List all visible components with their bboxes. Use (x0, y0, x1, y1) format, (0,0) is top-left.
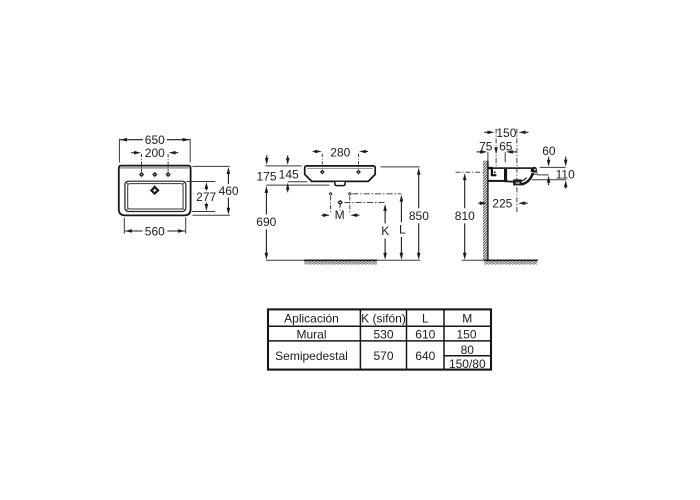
dim 75 arrow down on axis (494, 147, 498, 154)
wall face line (487, 161, 489, 261)
dim 560 line left w/ arrow (125, 229, 143, 233)
axis dashdot K (344, 201, 384, 203)
tap axis dash line (495, 129, 497, 168)
svg-text:L: L (399, 223, 406, 237)
dim 650 extension left (118, 139, 120, 163)
dim 110 arrow up (564, 180, 568, 188)
dim 850 arrow down (417, 223, 421, 259)
dim 460 bottom ref line (192, 214, 230, 216)
dim 277 arrow down (205, 203, 209, 211)
svg-text:M: M (462, 312, 472, 326)
drain section (513, 179, 522, 185)
drain axis dashdot (516, 129, 518, 213)
bowl bottom ref line (532, 179, 566, 181)
dim 810 arrow up (463, 173, 467, 208)
table column line 1 (359, 309, 361, 369)
dim 200 dash line left (141, 154, 143, 172)
basin rim top section (493, 167, 532, 169)
svg-text:690: 690 (256, 215, 276, 229)
dim M arrow right (350, 213, 359, 217)
dim 200 arrow left (131, 151, 141, 155)
dim 225 arrow left (478, 201, 486, 205)
dim 650 extension right (189, 139, 191, 163)
svg-text:277: 277 (196, 190, 216, 204)
dim 200 dash line right (167, 154, 169, 172)
dim 280 arrow left (313, 150, 322, 154)
TABLE (268, 309, 491, 371)
svg-text:530: 530 (373, 328, 393, 342)
dim 277 top ref line (187, 181, 216, 183)
dim 560 extension right (185, 218, 187, 234)
top ref line left (266, 165, 302, 167)
dim K arrow down (383, 239, 387, 260)
svg-text:640: 640 (415, 349, 435, 363)
svg-text:850: 850 (409, 209, 429, 223)
siphon hole (338, 200, 343, 205)
dim 60 arrow down (547, 157, 551, 167)
dim 650 line right w/ arrow (167, 138, 190, 142)
svg-text:150: 150 (496, 126, 516, 140)
dim 280 dash line left (321, 154, 323, 170)
svg-text:M: M (335, 208, 345, 222)
dim M arrow left (321, 213, 330, 217)
bowl front rise (521, 173, 532, 185)
bowl corner tick top-right (182, 182, 185, 184)
dim 560 extension left (123, 218, 125, 234)
axis dashdot L (352, 193, 401, 195)
bracket axis dashdot (456, 171, 483, 173)
dim K arrow up (383, 204, 387, 224)
svg-text:150/80: 150/80 (449, 357, 486, 371)
dim 810 arrow down (463, 223, 467, 259)
drain symbol (150, 185, 160, 195)
axis dashdot M left (330, 197, 332, 214)
wall extension line (487, 152, 489, 161)
bowl front rise inner edge (521, 178, 527, 182)
floor line right (462, 259, 538, 261)
basin front rim bump (531, 167, 537, 172)
bowl bottom section (504, 180, 514, 182)
svg-text:810: 810 (455, 209, 475, 223)
table row line M split (444, 355, 491, 357)
floor hatch top line right (484, 259, 538, 261)
dim 150 arrow left (484, 131, 494, 135)
svg-text:175: 175 (256, 169, 276, 183)
ref line 145 bottom (288, 181, 307, 183)
bowl corner tick bottom-right (182, 208, 185, 210)
face hole right (356, 170, 361, 175)
svg-text:570: 570 (373, 349, 393, 363)
basin rim inner line (120, 167, 189, 169)
dim 110 arrow down (564, 157, 568, 167)
svg-text:60: 60 (542, 144, 556, 158)
svg-text:145: 145 (279, 168, 299, 182)
dim 277 bottom ref line (192, 211, 215, 213)
dim 277 arrow up (205, 182, 209, 191)
dim 850 arrow up (417, 168, 421, 209)
tap hole left (139, 172, 144, 177)
floor hatch right (484, 261, 537, 264)
dim L arrow up (400, 195, 404, 222)
svg-text:280: 280 (330, 146, 350, 160)
tap hole center (152, 172, 157, 177)
svg-text:Semipedestal: Semipedestal (275, 349, 348, 363)
rim top ref line (540, 166, 566, 168)
basin bottom ledge section (488, 180, 504, 182)
dim 75 arrow (477, 150, 488, 154)
dim 460 arrow up (227, 167, 231, 184)
drain boss front (335, 182, 345, 186)
ref line 175 bottom (266, 184, 329, 186)
wall hatch (483, 161, 488, 261)
bowl back wall section (504, 169, 507, 181)
basin front outline (305, 166, 375, 182)
dim 690 arrow up (265, 186, 269, 215)
dim 200 arrow right (169, 151, 179, 155)
basin outer body (119, 166, 191, 216)
floor hatch center (304, 261, 376, 264)
top ref line right (381, 166, 420, 168)
pedestal hole right (348, 192, 352, 196)
FRONT VIEW (256, 146, 429, 265)
svg-text:150: 150 (456, 328, 476, 342)
ledge ref line (537, 174, 548, 176)
basin front rim line (307, 167, 372, 169)
axis dashdot M right (349, 197, 351, 214)
dim L arrow down (400, 237, 404, 260)
dim 145 arrow down (286, 155, 290, 165)
tap hole right (166, 172, 171, 177)
svg-text:Mural: Mural (296, 328, 326, 342)
ref line 65 (504, 152, 506, 162)
table row line 1 (268, 325, 491, 327)
bowl corner tick top-left (126, 182, 129, 184)
bowl inner edge (128, 184, 183, 209)
face hole left (320, 170, 325, 175)
svg-text:K (sifón): K (sifón) (361, 312, 406, 326)
svg-text:610: 610 (415, 328, 435, 342)
dim 65 arrow (506, 150, 516, 154)
svg-text:110: 110 (556, 168, 575, 182)
axis dash center (339, 205, 341, 212)
dim 460 arrow down (227, 198, 231, 215)
svg-text:K: K (381, 224, 389, 238)
mounting bracket (488, 167, 497, 177)
svg-text:80: 80 (461, 343, 475, 357)
floor hatch top line (304, 259, 377, 261)
svg-text:225: 225 (492, 197, 512, 211)
dim 690 arrow down (265, 230, 269, 260)
table outer border (268, 309, 491, 369)
svg-text:560: 560 (145, 224, 165, 238)
PLAN VIEW (119, 133, 239, 238)
svg-text:Aplicación: Aplicación (284, 312, 339, 326)
dim 280 arrow right (359, 150, 368, 154)
dim 145 arrow up (286, 183, 290, 193)
dim 560 line right w/ arrow (167, 229, 185, 233)
bowl outer edge (125, 181, 186, 211)
dim 175 arrow down (265, 155, 269, 165)
dim 150 arrow right (519, 131, 529, 135)
svg-text:L: L (422, 312, 429, 326)
dim 280 dash line right (358, 154, 360, 170)
SIDE VIEW (455, 126, 575, 265)
dim 60 arrow up (547, 176, 551, 186)
dim 460 top ref line (192, 165, 229, 167)
table column line 2 (406, 309, 408, 369)
table column line 3 (443, 309, 445, 369)
svg-text:200: 200 (145, 146, 165, 160)
basin front lower square (533, 172, 537, 175)
floor line center (266, 259, 420, 261)
dim 225 arrow right (518, 201, 528, 205)
table row line 2 (268, 340, 491, 342)
dim 650 line left w/ arrow (120, 138, 143, 142)
pedestal hole left (329, 192, 333, 196)
drain slot (516, 182, 520, 184)
svg-text:460: 460 (219, 184, 239, 198)
bowl corner tick bottom-left (126, 208, 129, 210)
svg-text:650: 650 (145, 133, 165, 147)
